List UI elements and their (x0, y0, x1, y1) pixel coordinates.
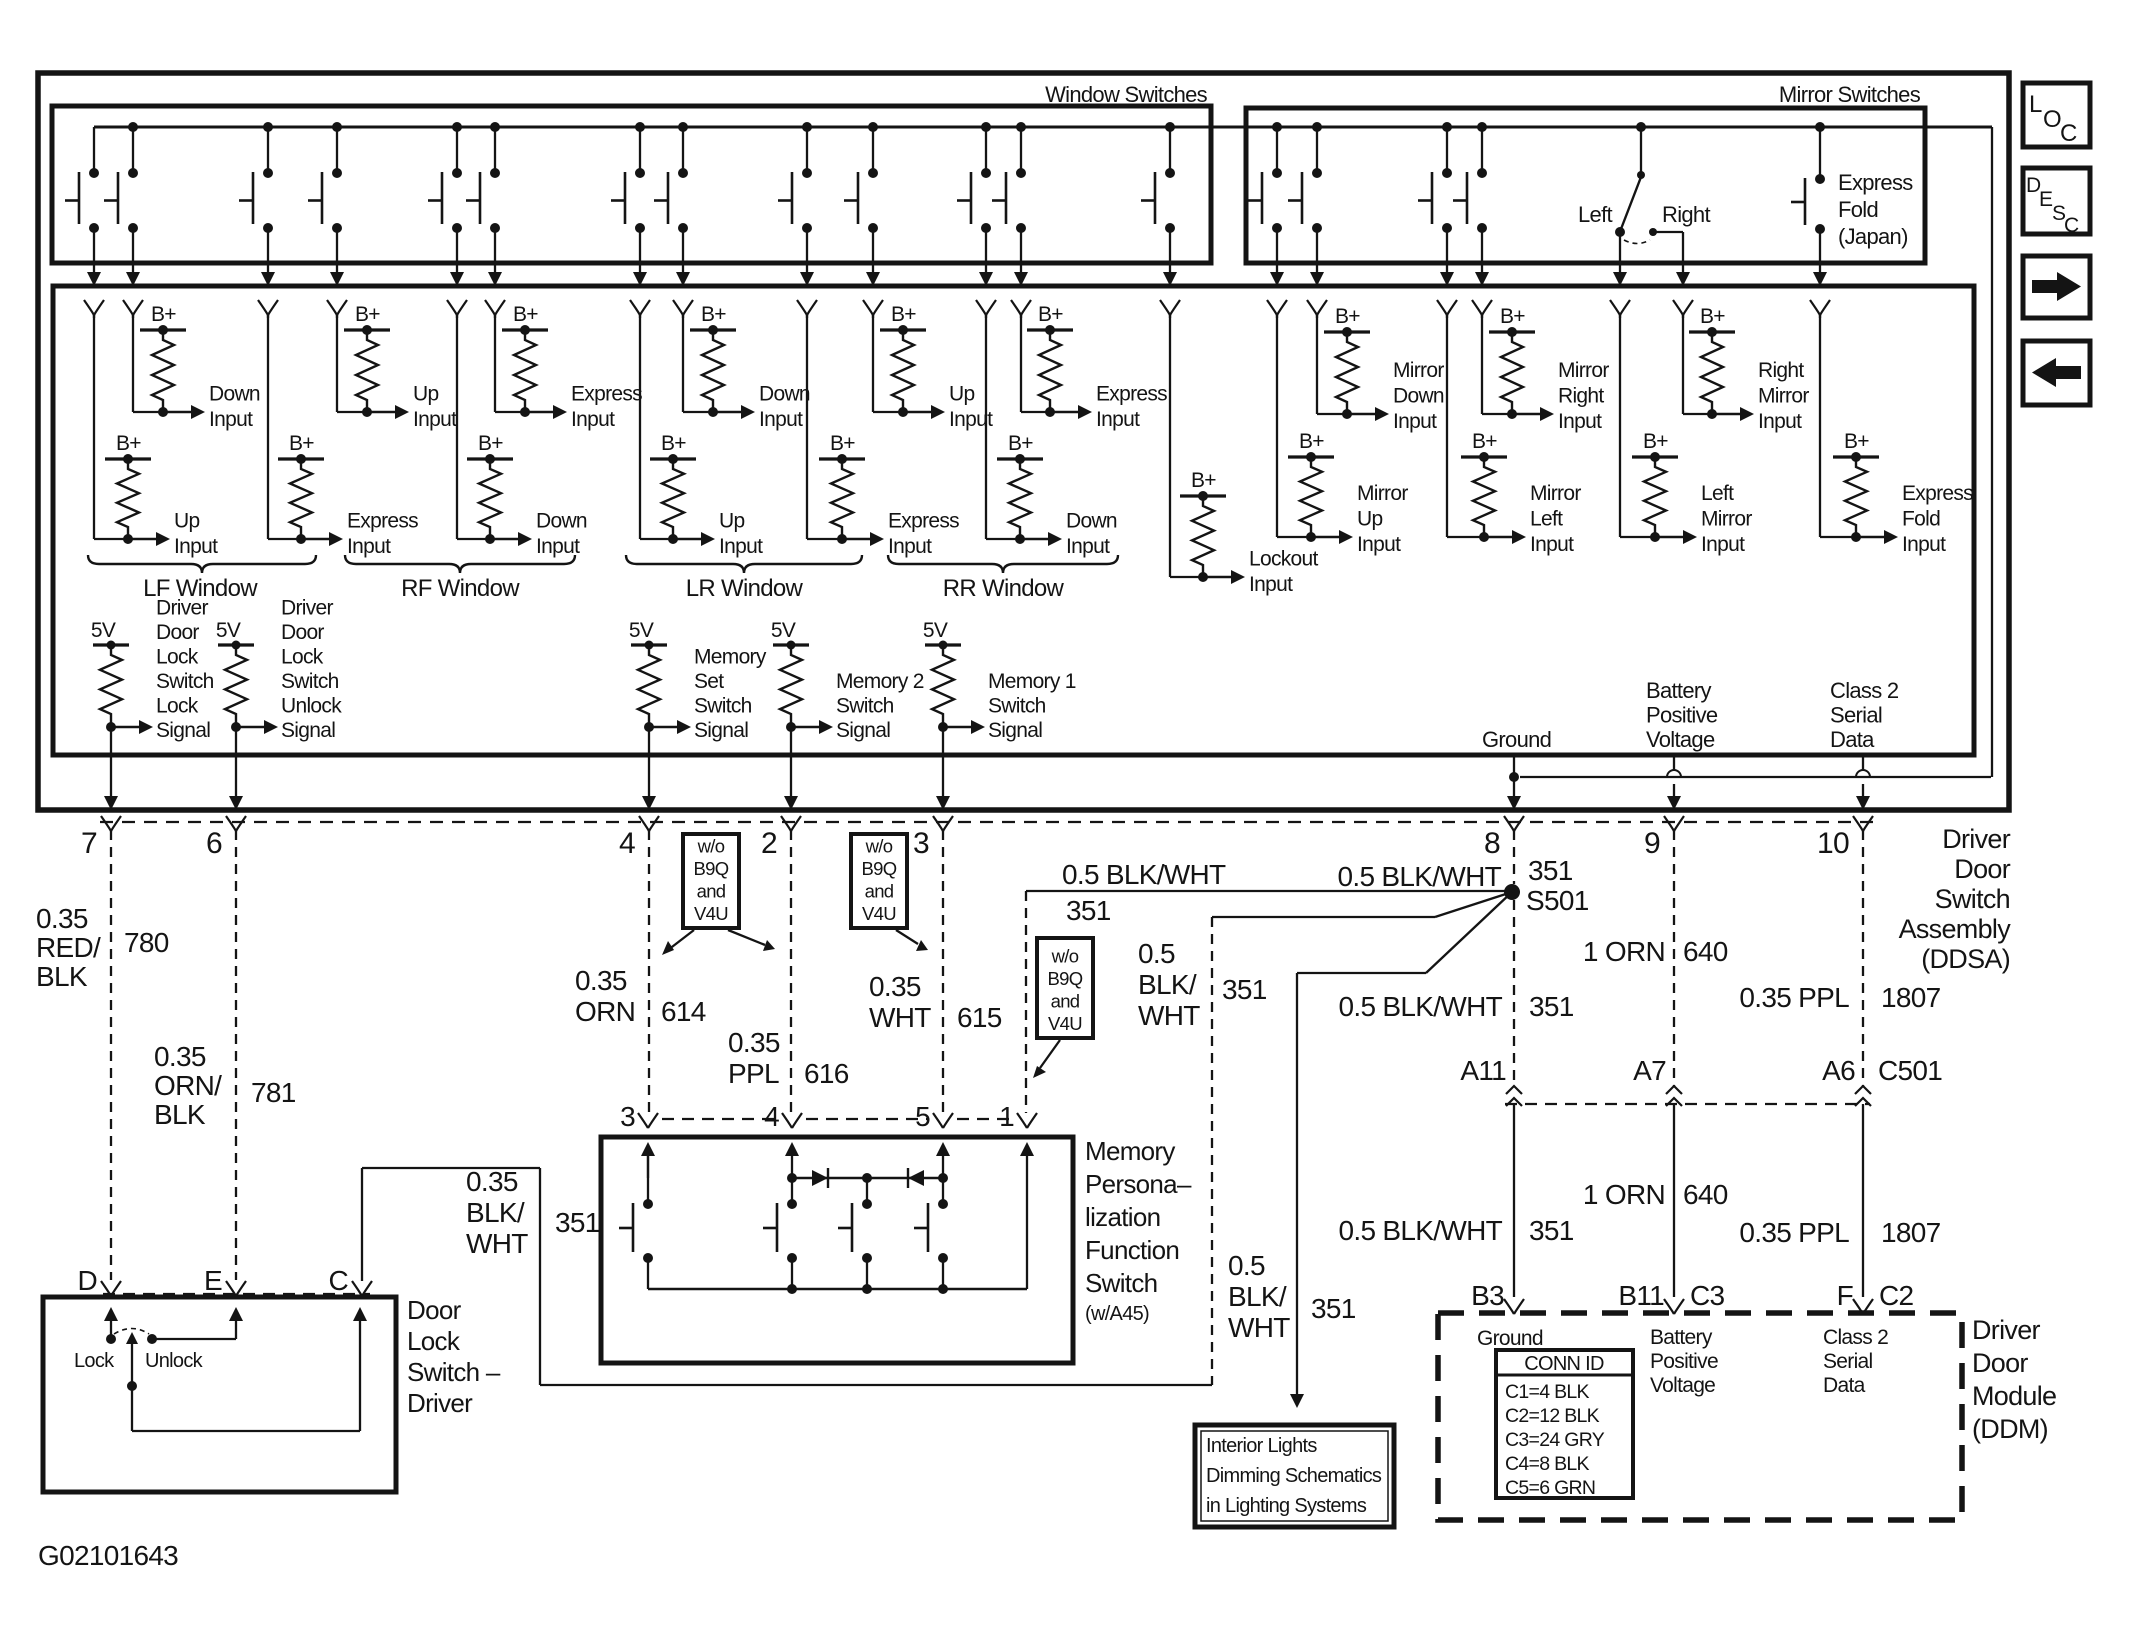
resistor R8 LR down (690, 328, 736, 331)
connector pin 4 DDSA (639, 816, 659, 831)
svg-text:0.5: 0.5 (1228, 1250, 1265, 1281)
svg-text:A7: A7 (1633, 1055, 1666, 1086)
svg-text:Data: Data (1830, 727, 1875, 752)
svg-text:Driver: Driver (1972, 1315, 2041, 1345)
svg-text:B+: B+ (701, 303, 726, 326)
svg-text:Input: Input (888, 535, 932, 558)
resistor R2 LF down (140, 328, 186, 331)
svg-text:Up: Up (949, 383, 974, 406)
wire R7 LR up (639, 314, 641, 539)
wire R20 express fold (1819, 314, 1821, 537)
wire R24 memory2 down (790, 727, 792, 796)
wire into box x=1447 (1440, 272, 1454, 286)
switch S4 window RF up sw2R (332, 122, 342, 132)
switch S3 window LF express sw2L (263, 122, 273, 132)
svg-text:B+: B+ (151, 303, 176, 326)
svg-text:Input: Input (347, 535, 391, 558)
svg-text:B3: B3 (1471, 1280, 1504, 1311)
wire R15 mirror down (1316, 314, 1318, 414)
svg-text:351: 351 (1528, 855, 1573, 886)
svg-text:Positive: Positive (1646, 703, 1718, 728)
wire into box x=1620 (1613, 272, 1627, 286)
svg-text:WHT: WHT (466, 1228, 528, 1259)
wire into box x=1277 (1270, 272, 1284, 286)
svg-text:BLK: BLK (154, 1099, 206, 1130)
resistor R7 LR up (650, 457, 696, 460)
svg-text:351: 351 (1066, 895, 1111, 926)
svg-text:640: 640 (1683, 936, 1728, 967)
svg-text:LR Window: LR Window (686, 575, 804, 602)
connector pin 6 DDSA (226, 816, 246, 831)
svg-text:0.5: 0.5 (1138, 938, 1175, 969)
wire R17 mirror right (1481, 314, 1483, 414)
svg-text:F: F (1837, 1280, 1853, 1311)
switch S6 window RF express (490, 122, 500, 132)
svg-text:ORN/: ORN/ (154, 1070, 222, 1101)
svg-text:Input: Input (1701, 533, 1745, 556)
connector pin A11 C501 (1506, 1086, 1522, 1094)
svg-text:Function: Function (1085, 1235, 1179, 1265)
resistor R1 LF up (105, 457, 151, 460)
svg-text:0.35 PPL: 0.35 PPL (1739, 1217, 1849, 1248)
brace LF Window (88, 555, 316, 573)
svg-text:Input: Input (719, 535, 763, 558)
inner input box (53, 286, 1974, 755)
svg-text:BLK: BLK (36, 961, 88, 992)
svg-text:Signal: Signal (836, 719, 890, 742)
connector pin A7 C501 (1666, 1086, 1682, 1094)
resistor R24 memory2 (773, 643, 809, 646)
svg-text:B+: B+ (830, 432, 855, 455)
wire into box x=337 (330, 272, 344, 286)
svg-text:Down: Down (1066, 510, 1117, 533)
svg-text:in Lighting Systems: in Lighting Systems (1206, 1495, 1367, 1517)
svg-text:B11: B11 (1618, 1280, 1664, 1311)
svg-text:780: 780 (124, 927, 169, 958)
svg-text:Window Switches: Window Switches (1045, 82, 1208, 107)
connector pin 4 memory switch (782, 1113, 802, 1128)
ground return wire right side (1991, 127, 1993, 777)
svg-text:C3=24 GRY: C3=24 GRY (1505, 1429, 1605, 1451)
svg-text:615: 615 (957, 1002, 1002, 1033)
wire R8 LR down (682, 314, 684, 412)
svg-text:E: E (2039, 188, 2053, 211)
button prev arrow (2023, 341, 2090, 405)
svg-text:Up: Up (1357, 508, 1382, 531)
svg-text:Right: Right (1662, 202, 1710, 227)
wire into box x=1820 (1813, 272, 1827, 286)
memory pin arrows (641, 1142, 655, 1156)
callout box w/o B9Q and V4U (pin 3) (851, 834, 907, 928)
wire into box x=133 (126, 272, 140, 286)
resistor R22 unlock signal (218, 643, 254, 646)
svg-text:5V: 5V (216, 619, 241, 642)
svg-text:C501: C501 (1878, 1055, 1942, 1086)
svg-text:Mirror: Mirror (1701, 508, 1752, 531)
svg-text:Express: Express (888, 510, 959, 533)
svg-text:8: 8 (1484, 827, 1500, 860)
table CONN ID (1496, 1350, 1633, 1498)
svg-text:Assembly: Assembly (1899, 914, 2012, 944)
wire R22 unlock signal down (235, 727, 237, 796)
connector pin 3 DDSA (933, 816, 953, 831)
wire R4 RF up (336, 314, 338, 412)
svg-text:B+: B+ (1299, 430, 1324, 453)
svg-text:Door: Door (1954, 854, 2010, 884)
svg-text:Lock: Lock (74, 1350, 115, 1372)
resistor R16 mirror left (1461, 455, 1507, 458)
brace LR Window (626, 555, 862, 573)
connector line door lock switch (103, 1293, 370, 1295)
wire 351 BLK/WHT vertical to junction (1211, 917, 1213, 1385)
wire R14 mirror up (1276, 314, 1278, 537)
svg-text:1807: 1807 (1881, 1217, 1941, 1248)
diode D1 (812, 1170, 828, 1186)
svg-text:Memory 2: Memory 2 (836, 670, 924, 693)
svg-text:Positive: Positive (1650, 1350, 1718, 1373)
svg-text:O: O (2043, 106, 2061, 133)
resistor R6 RF express (502, 328, 548, 331)
svg-text:5: 5 (915, 1101, 930, 1132)
connector pin 5 memory switch (933, 1113, 953, 1128)
connector line C501 (1505, 1103, 1870, 1105)
wire into box x=807 (800, 272, 814, 286)
wire R6 RF express (494, 314, 496, 412)
svg-text:B+: B+ (1335, 305, 1360, 328)
svg-text:Up: Up (413, 383, 438, 406)
resistor R18 left mirror (1632, 455, 1678, 458)
svg-text:640: 640 (1683, 1179, 1728, 1210)
svg-text:1 ORN: 1 ORN (1583, 1179, 1665, 1210)
switch S1 window LF up (93, 127, 95, 173)
svg-text:2: 2 (761, 827, 777, 860)
svg-text:V4U: V4U (1048, 1013, 1082, 1034)
svg-text:WHT: WHT (869, 1002, 931, 1033)
svg-text:Down: Down (536, 510, 587, 533)
wire 351 S501 to A11 (1513, 900, 1515, 1086)
resistor R13 lockout (1180, 494, 1226, 497)
wire R21 lock signal down (110, 727, 112, 796)
svg-text:Down: Down (209, 383, 260, 406)
callout box w/o B9Q and V4U (pins 4-2) (683, 834, 739, 928)
svg-text:and: and (1051, 991, 1080, 1012)
svg-text:Down: Down (759, 383, 810, 406)
svg-text:Driver: Driver (281, 597, 334, 620)
wire 615 WHT pin3 to memory pin5 (942, 830, 944, 1113)
switch pole door lock (126, 1332, 138, 1344)
bus wire B+ feed (94, 126, 1992, 129)
wire R2 LF down (132, 314, 134, 412)
wire R19 right mirror (1682, 314, 1684, 414)
svg-text:Lock: Lock (156, 695, 199, 718)
svg-text:Input: Input (759, 408, 803, 431)
svg-text:781: 781 (251, 1077, 296, 1108)
wire into box x=1683 (1676, 272, 1690, 286)
wire class 2 serial data (1862, 757, 1864, 770)
svg-text:Express: Express (1902, 482, 1973, 505)
wire into box x=1170 (1163, 272, 1177, 286)
svg-text:Class 2: Class 2 (1830, 678, 1899, 703)
svg-text:Express: Express (347, 510, 418, 533)
wire R9 LR express (806, 314, 808, 539)
svg-text:RED/: RED/ (36, 932, 101, 963)
svg-text:Input: Input (536, 535, 580, 558)
wire into box x=1482 (1475, 272, 1489, 286)
svg-text:351: 351 (555, 1207, 600, 1238)
svg-text:B9Q: B9Q (1048, 968, 1083, 989)
svg-text:Door: Door (1972, 1348, 2028, 1378)
svg-text:C1=4 BLK: C1=4 BLK (1505, 1381, 1590, 1403)
svg-text:Mirror: Mirror (1393, 359, 1444, 382)
button LOC (2023, 83, 2090, 147)
connector pin 8 DDSA (1504, 816, 1524, 831)
svg-text:WHT: WHT (1138, 1000, 1200, 1031)
svg-text:Voltage: Voltage (1650, 1374, 1715, 1397)
resistor R23 memory set (631, 643, 667, 646)
svg-text:Switch: Switch (1935, 884, 2010, 914)
connector pin A6 C501 (1855, 1086, 1871, 1094)
svg-text:3: 3 (620, 1101, 635, 1132)
switch M7 express fold (1815, 122, 1825, 132)
svg-text:Battery: Battery (1650, 1326, 1713, 1349)
svg-text:5V: 5V (923, 619, 948, 642)
resistor R12 RR express (1027, 328, 1073, 331)
svg-text:Data: Data (1823, 1374, 1866, 1397)
svg-text:0.35: 0.35 (466, 1166, 518, 1197)
resistor R19 right mirror (1689, 330, 1735, 333)
svg-text:Input: Input (571, 408, 615, 431)
svg-text:PPL: PPL (728, 1058, 779, 1089)
svg-text:Mirror: Mirror (1558, 359, 1609, 382)
wire 351 BLK/WHT from door lock pin C (361, 1168, 363, 1281)
svg-text:Left: Left (1578, 202, 1612, 227)
svg-text:(DDSA): (DDSA) (1921, 944, 2010, 974)
resistor R10 RR up (880, 328, 926, 331)
svg-text:Lockout: Lockout (1249, 548, 1319, 571)
wire pole to pin C (132, 1430, 360, 1432)
wire 614 ORN pin4 to memory pin3 (648, 830, 650, 1113)
svg-text:Serial: Serial (1830, 703, 1882, 728)
svg-text:B+: B+ (116, 432, 141, 455)
diode D2 (908, 1170, 924, 1186)
svg-text:(DDM): (DDM) (1972, 1414, 2048, 1444)
wire S501 branch to 1212 (1435, 892, 1512, 917)
svg-text:Memory: Memory (1085, 1136, 1175, 1166)
resistor R17 mirror right (1489, 330, 1535, 333)
switch M1 mirror pair1 left (1272, 122, 1282, 132)
wire 781 ORN/BLK pin6 to E (235, 830, 237, 1280)
wire 1807 A6 to F (1862, 1104, 1864, 1297)
connector pin D door lock switch (101, 1281, 121, 1296)
resistor R5 RF down (467, 457, 513, 460)
svg-text:4: 4 (619, 827, 635, 860)
switch S10 window RR up (868, 122, 878, 132)
box Door Lock Switch - Driver (43, 1297, 396, 1492)
svg-text:614: 614 (661, 996, 706, 1027)
memory riser to pin1 (1026, 1153, 1028, 1289)
svg-text:WHT: WHT (1228, 1312, 1290, 1343)
svg-text:351: 351 (1222, 974, 1267, 1005)
svg-text:Input: Input (209, 408, 253, 431)
box Memory Personalization Function Switch (601, 1137, 1073, 1363)
svg-text:Persona–: Persona– (1085, 1169, 1192, 1199)
svg-text:Input: Input (1249, 573, 1293, 596)
svg-text:C2: C2 (1879, 1280, 1914, 1311)
switch S12 window RR express (1016, 122, 1026, 132)
pushbutton memory x=648 (647, 1153, 649, 1204)
memory bottom bus (648, 1288, 1027, 1290)
svg-text:C2=12 BLK: C2=12 BLK (1505, 1405, 1600, 1427)
resistor R9 LR express (819, 457, 865, 460)
svg-text:B+: B+ (1643, 430, 1668, 453)
svg-text:3: 3 (913, 827, 929, 860)
switch M3 mirror pair2 left (1442, 122, 1452, 132)
svg-text:Driver: Driver (407, 1388, 473, 1418)
wire R23 memory set down (648, 727, 650, 796)
svg-text:351: 351 (1529, 991, 1574, 1022)
svg-text:B+: B+ (355, 303, 380, 326)
brace RF Window (345, 555, 575, 573)
outer frame (38, 73, 2009, 810)
wire into box x=94 (87, 272, 101, 286)
junction S501 (1504, 884, 1520, 900)
svg-text:Fold: Fold (1838, 197, 1878, 222)
svg-text:Input: Input (1066, 535, 1110, 558)
resistor R11 RR down (997, 457, 1043, 460)
callout box w/o B9Q and V4U (pin 1) (1037, 938, 1093, 1038)
switch S5 window RF down (452, 122, 462, 132)
svg-text:Express: Express (1838, 170, 1913, 195)
button next arrow (2023, 256, 2090, 318)
svg-text:Signal: Signal (156, 719, 210, 742)
svg-text:Mirror: Mirror (1357, 482, 1408, 505)
wire battery positive (1673, 757, 1675, 770)
svg-text:7: 7 (81, 827, 97, 860)
svg-text:Door: Door (156, 621, 199, 644)
connector pin 2 DDSA (781, 816, 801, 831)
svg-text:Up: Up (719, 510, 744, 533)
svg-text:5V: 5V (91, 619, 116, 642)
switch S13 window lockout (1165, 122, 1175, 132)
svg-text:B+: B+ (1700, 305, 1725, 328)
svg-text:C4=8 BLK: C4=8 BLK (1505, 1453, 1590, 1475)
wire 640 ORN pin9 (1673, 830, 1675, 1086)
svg-text:BLK/: BLK/ (1228, 1281, 1287, 1312)
svg-text:Lock: Lock (281, 646, 324, 669)
svg-text:Unlock: Unlock (145, 1350, 204, 1372)
svg-text:B+: B+ (1844, 430, 1869, 453)
svg-text:0.35: 0.35 (36, 903, 88, 934)
svg-text:Driver: Driver (1942, 824, 2011, 854)
wire 780 RED/BLK pin7 to D (110, 830, 112, 1280)
wire ground stub (1513, 757, 1515, 777)
svg-text:Mirror Switches: Mirror Switches (1779, 82, 1921, 107)
wire R3 LF express (267, 314, 269, 539)
connector line memory switch (662, 1118, 778, 1120)
svg-text:Left: Left (1701, 482, 1734, 505)
svg-text:0.35 PPL: 0.35 PPL (1739, 982, 1849, 1013)
svg-text:Driver: Driver (156, 597, 209, 620)
svg-text:B9Q: B9Q (862, 858, 897, 879)
svg-text:w/o: w/o (865, 836, 893, 857)
svg-text:Switch: Switch (694, 695, 752, 718)
svg-text:V4U: V4U (694, 903, 728, 924)
svg-text:Input: Input (1558, 410, 1602, 433)
svg-text:Mirror: Mirror (1758, 385, 1809, 408)
wire R5 RF down (456, 314, 458, 539)
svg-text:G02101643: G02101643 (38, 1540, 178, 1571)
svg-text:L: L (2029, 91, 2042, 118)
svg-text:BLK/: BLK/ (1138, 969, 1197, 1000)
svg-text:S501: S501 (1526, 885, 1589, 916)
brace RR Window (888, 555, 1118, 573)
pushbutton memory x=867 (866, 1178, 868, 1204)
wire 616 PPL pin2 to memory pin4 (790, 830, 792, 1113)
wire pin E inside (147, 1334, 157, 1344)
svg-text:6: 6 (206, 827, 222, 860)
svg-text:Mirror: Mirror (1530, 482, 1581, 505)
svg-text:B+: B+ (478, 432, 503, 455)
svg-text:Input: Input (1902, 533, 1946, 556)
svg-text:Input: Input (174, 535, 218, 558)
svg-text:Memory: Memory (694, 646, 767, 669)
svg-text:351: 351 (1529, 1215, 1574, 1246)
svg-text:Set: Set (694, 670, 724, 693)
switch M2 mirror pair1 right (1312, 122, 1322, 132)
svg-text:E: E (204, 1265, 222, 1296)
svg-text:RF Window: RF Window (401, 575, 520, 602)
svg-text:0.5 BLK/WHT: 0.5 BLK/WHT (1338, 861, 1502, 892)
svg-text:Up: Up (174, 510, 199, 533)
svg-text:w/o: w/o (697, 836, 725, 857)
wire S501 branch to 1297 (1426, 892, 1512, 973)
button DESC (2023, 168, 2090, 234)
pushbutton memory x=943 (942, 1178, 944, 1204)
svg-text:9: 9 (1644, 827, 1660, 860)
svg-text:B+: B+ (661, 432, 686, 455)
svg-text:B+: B+ (1500, 305, 1525, 328)
svg-text:B9Q: B9Q (694, 858, 729, 879)
resistor R15 mirror down (1324, 330, 1370, 333)
svg-text:0.35: 0.35 (575, 965, 627, 996)
svg-text:Input: Input (1096, 408, 1140, 431)
connector line DDSA (100, 821, 1875, 823)
svg-text:B+: B+ (1472, 430, 1497, 453)
svg-text:Signal: Signal (694, 719, 748, 742)
svg-text:Serial: Serial (1823, 1350, 1873, 1373)
svg-text:Unlock: Unlock (281, 695, 342, 718)
wire into box x=683 (676, 272, 690, 286)
wire 351 pin8 to S501 (1513, 830, 1515, 884)
svg-text:Right: Right (1558, 385, 1604, 408)
svg-text:B+: B+ (289, 432, 314, 455)
svg-text:Express: Express (1096, 383, 1167, 406)
svg-text:Input: Input (1357, 533, 1401, 556)
wire into box x=495 (488, 272, 502, 286)
svg-text:(Japan): (Japan) (1838, 224, 1908, 249)
svg-text:Class 2: Class 2 (1823, 1326, 1888, 1349)
svg-text:CONN ID: CONN ID (1524, 1353, 1604, 1375)
switch S7 window LR up (635, 122, 645, 132)
svg-text:Input: Input (1758, 410, 1802, 433)
svg-text:lization: lization (1085, 1202, 1160, 1232)
svg-text:Fold: Fold (1902, 508, 1940, 531)
svg-text:C: C (2060, 120, 2077, 147)
svg-text:Signal: Signal (281, 719, 335, 742)
svg-text:Module: Module (1972, 1381, 2056, 1411)
svg-text:351: 351 (1311, 1293, 1356, 1324)
svg-text:Left: Left (1530, 508, 1563, 531)
